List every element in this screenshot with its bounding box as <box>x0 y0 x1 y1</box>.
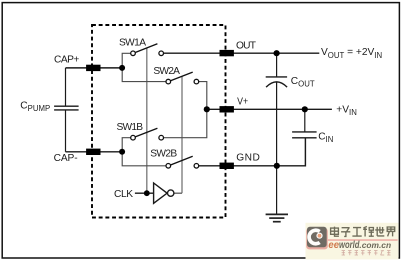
wire C_OUT bottom to ground rail <box>276 82 278 214</box>
wire C_PUMP to CAP- row <box>65 110 67 152</box>
svg-text:eeworld.com.cn: eeworld.com.cn <box>328 240 391 251</box>
watermark slogan 创新电子设计之家 (stylized) <box>342 250 391 255</box>
wire OUT row <box>164 52 320 54</box>
svg-text:SW2A: SW2A <box>153 66 180 77</box>
svg-text:CAP-: CAP- <box>54 153 78 164</box>
wire left column to C_PUMP <box>65 68 67 106</box>
junction CAP- node <box>119 149 125 155</box>
watermark logo icon <box>306 227 328 250</box>
wire C_IN top to V+ node <box>304 109 306 132</box>
inverter U1 <box>154 183 174 203</box>
wire CAP+ row <box>66 67 123 69</box>
junction V+ switch node <box>204 106 210 112</box>
junction CAP+ node <box>119 65 125 71</box>
junction CLK node <box>144 190 150 196</box>
terminal CAP+ <box>86 65 100 71</box>
dashed box (switch-network boundary) <box>92 25 226 218</box>
wire SW2A/SW1B to V+ node <box>164 82 207 138</box>
svg-text:GND: GND <box>236 153 259 164</box>
svg-text:V+: V+ <box>237 97 248 108</box>
svg-text:CLK: CLK <box>114 189 133 200</box>
wire GND row to C_IN bottom <box>199 138 306 166</box>
wire V+ row <box>207 108 332 110</box>
switch SW2B <box>166 156 199 168</box>
watermark title 电子工程世界 (stylized strokes) <box>331 227 395 237</box>
terminal OUT <box>220 50 234 56</box>
terminal V+ <box>220 106 234 112</box>
terminal CAP- <box>86 149 100 155</box>
svg-text:SW1A: SW1A <box>119 38 146 49</box>
svg-text:SW1B: SW1B <box>117 122 144 133</box>
wire CLK input <box>135 192 154 194</box>
wire inverter output <box>174 192 182 194</box>
svg-text:CAP+: CAP+ <box>54 55 79 66</box>
junction V+ / C_IN node <box>302 106 308 112</box>
svg-text:OUT: OUT <box>236 41 256 52</box>
switch SW2A <box>166 72 199 84</box>
switch SW1A <box>131 44 164 56</box>
control line inverted phase (drives SW2A/SW2B) <box>181 76 183 193</box>
capacitor C_IN <box>292 132 317 138</box>
wire CAP- node bracket to switch contacts <box>122 138 166 166</box>
switch SW1B <box>131 128 164 140</box>
wire CAP+ node bracket to switch contacts <box>122 53 166 81</box>
terminal GND <box>220 163 234 169</box>
control line CLK phase (drives SW1A/SW1B) <box>146 48 148 193</box>
capacitor C_OUT (polarized) <box>266 77 287 87</box>
junction OUT node <box>274 50 280 56</box>
wire OUT node to C_OUT <box>276 53 278 77</box>
watermark background <box>306 223 399 260</box>
capacitor C_PUMP <box>54 106 79 110</box>
watermark underline <box>328 239 398 241</box>
ground <box>266 214 288 221</box>
junction GND node <box>274 163 280 169</box>
svg-text:SW2B: SW2B <box>150 148 177 159</box>
wire CAP- row <box>66 151 123 153</box>
